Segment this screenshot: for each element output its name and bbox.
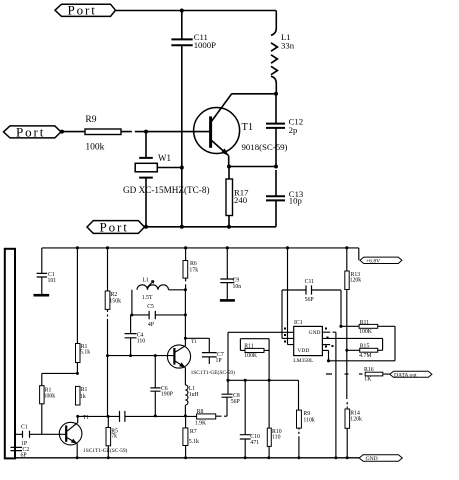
svg-text:VDD: VDD (297, 348, 309, 354)
svg-text:10p: 10p (289, 195, 302, 205)
svg-text:1.9K: 1.9K (195, 420, 207, 426)
svg-text:56P: 56P (231, 399, 240, 405)
svg-text:L1: L1 (143, 277, 150, 283)
svg-text:471: 471 (250, 440, 259, 446)
svg-text:101: 101 (48, 278, 57, 284)
svg-text:7k: 7k (111, 433, 117, 439)
svg-text:5.1k: 5.1k (80, 349, 90, 355)
svg-text:GND: GND (366, 456, 378, 462)
svg-text:W1: W1 (158, 153, 171, 163)
svg-text:R15: R15 (360, 344, 370, 350)
svg-text:1uH: 1uH (189, 392, 200, 398)
svg-text:240: 240 (234, 195, 248, 205)
svg-text:1000P: 1000P (194, 40, 216, 50)
svg-text:R9: R9 (85, 115, 96, 125)
svg-text:100k: 100k (44, 394, 56, 400)
svg-text:R9: R9 (303, 411, 310, 417)
svg-text:R1: R1 (81, 387, 88, 393)
svg-text:5.1k: 5.1k (189, 439, 199, 445)
svg-text:150k: 150k (109, 298, 121, 304)
svg-text:IC1: IC1 (294, 320, 303, 326)
svg-text:2p: 2p (289, 125, 298, 135)
svg-text:56P: 56P (305, 297, 314, 303)
svg-text:Port: Port (16, 124, 45, 139)
svg-text:C5: C5 (147, 304, 154, 310)
svg-text:GD XC-15MHZ(TC-8): GD XC-15MHZ(TC-8) (123, 185, 210, 195)
svg-text:R11: R11 (360, 320, 370, 326)
svg-text:C11: C11 (305, 279, 315, 285)
svg-text:T1: T1 (83, 415, 90, 421)
svg-text:1SC1T1-GE(SC-59): 1SC1T1-GE(SC-59) (83, 447, 128, 454)
svg-text:1P: 1P (216, 358, 222, 364)
svg-text:LM358L: LM358L (293, 358, 314, 364)
svg-text:Port: Port (100, 220, 129, 235)
svg-text:Port: Port (68, 3, 97, 18)
svg-text:R8: R8 (197, 409, 204, 415)
svg-text:190P: 190P (161, 391, 173, 397)
svg-text:T1: T1 (191, 339, 197, 345)
svg-text:4P: 4P (148, 322, 154, 328)
svg-text:1.5T: 1.5T (142, 295, 153, 301)
svg-text:DATA out: DATA out (394, 372, 417, 378)
svg-text:110: 110 (137, 338, 146, 344)
svg-text:GND: GND (309, 330, 321, 336)
svg-text:4.7M: 4.7M (359, 353, 371, 359)
svg-text:6P: 6P (21, 453, 27, 459)
svg-text:120k: 120k (350, 278, 362, 284)
svg-text:R2: R2 (111, 292, 118, 298)
svg-text:100K: 100K (244, 353, 258, 359)
svg-text:C1: C1 (21, 424, 28, 430)
svg-text:T1: T1 (242, 122, 254, 133)
svg-text:110k: 110k (303, 418, 314, 424)
svg-text:120k: 120k (350, 416, 362, 422)
svg-text:9018(SC-59): 9018(SC-59) (242, 142, 288, 152)
svg-text:R7: R7 (190, 429, 197, 435)
svg-text:10n: 10n (233, 284, 242, 290)
svg-text:R16: R16 (364, 367, 374, 373)
svg-text:R11: R11 (244, 343, 254, 349)
svg-text:100K: 100K (359, 329, 373, 335)
svg-text:1k: 1k (80, 394, 86, 400)
svg-text:1SC1T1-GE(SC-59): 1SC1T1-GE(SC-59) (191, 369, 236, 376)
svg-text:33n: 33n (281, 41, 295, 51)
svg-text:C9: C9 (233, 278, 240, 284)
svg-text:+6.8V: +6.8V (366, 258, 380, 264)
svg-text:1K: 1K (364, 377, 372, 383)
svg-text:110: 110 (272, 435, 281, 441)
svg-text:17k: 17k (189, 267, 198, 273)
svg-text:R6: R6 (190, 261, 197, 267)
svg-text:100k: 100k (85, 143, 104, 153)
